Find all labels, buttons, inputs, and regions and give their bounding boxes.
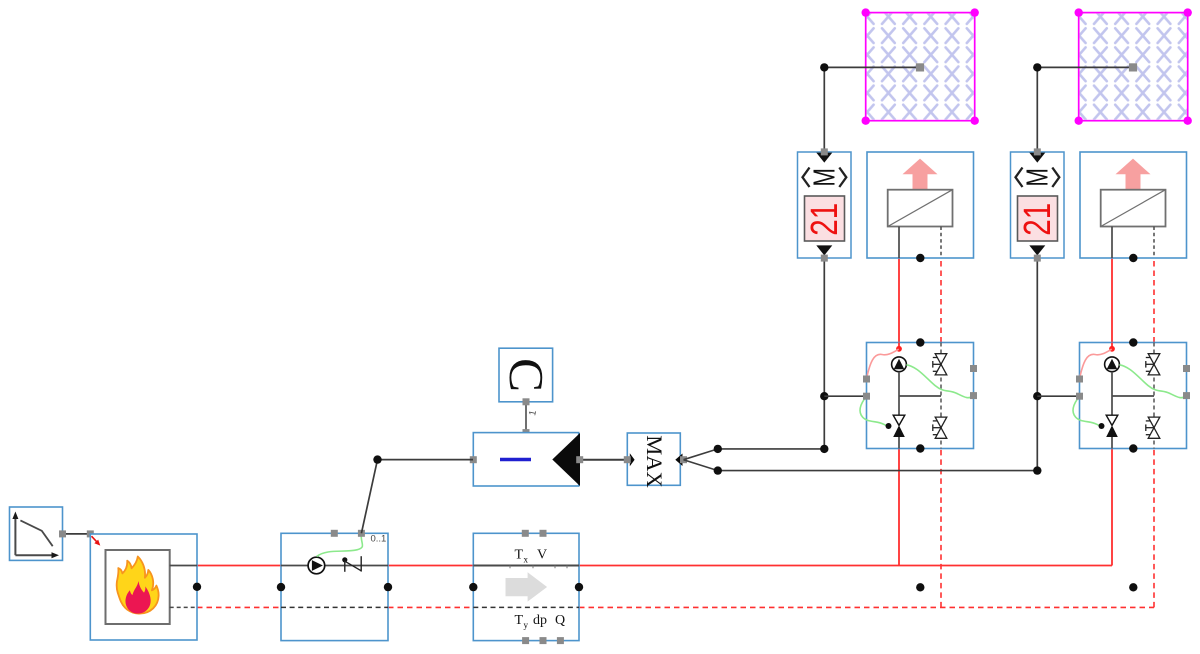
svg-text:M: M bbox=[1020, 168, 1054, 187]
node red bbox=[1109, 346, 1115, 352]
return pipe (red dashed) pump to sensor bbox=[388, 606, 473, 608]
wire riser control 1 vertical bbox=[823, 258, 825, 449]
connector square MAX output bbox=[680, 456, 687, 463]
return pipe (red dashed) main run bbox=[579, 606, 1154, 608]
green curve left to valve bbox=[860, 396, 888, 426]
svg-text:V: V bbox=[537, 548, 547, 563]
node zone1 junction bbox=[820, 63, 828, 71]
return pipe (red dashed) boiler to pump bbox=[197, 606, 281, 608]
connector squares mixer 2 bbox=[1076, 376, 1083, 383]
wire MAX out fan lower bbox=[684, 460, 1038, 471]
big black triangle bbox=[552, 433, 580, 486]
supply riser 1 lower bbox=[898, 449, 900, 566]
wire riser control 2 vertical bbox=[1036, 258, 1038, 471]
red input arrow into boiler bbox=[92, 536, 101, 545]
node boiler outlet bbox=[193, 583, 201, 591]
mixer pump bbox=[1105, 357, 1120, 372]
internal return line (black dashed) bbox=[473, 606, 579, 608]
connector square limiter top bbox=[523, 429, 530, 436]
wire heating curve to boiler bbox=[63, 533, 91, 535]
svg-text:y: y bbox=[524, 620, 529, 630]
connector square MAX input bbox=[624, 456, 631, 463]
boiler block bbox=[90, 534, 197, 640]
svg-text:T: T bbox=[515, 548, 524, 563]
svg-text:x: x bbox=[524, 555, 529, 565]
supply riser 2 upper bbox=[1111, 258, 1113, 343]
radiator body bbox=[888, 190, 953, 227]
crossover line bbox=[1112, 395, 1154, 397]
thermostat M21 block 1 bbox=[798, 152, 852, 258]
pump circle bbox=[308, 557, 325, 574]
mixing circuit block 2 bbox=[1073, 343, 1186, 449]
wire C to limiter bbox=[525, 402, 527, 433]
crossover line bbox=[899, 395, 941, 397]
wire branch 1 to mixer bbox=[824, 395, 866, 397]
connector square zone1 center bbox=[916, 63, 924, 71]
radiator block 2 bbox=[1080, 152, 1187, 258]
supply stub red bbox=[1111, 343, 1113, 349]
node red bbox=[896, 346, 902, 352]
svg-text:MAX: MAX bbox=[642, 435, 667, 488]
MAX block bbox=[627, 433, 682, 488]
return riser 1 lower (red dashed) bbox=[940, 449, 942, 608]
node mixer 2 top bbox=[1129, 338, 1137, 346]
pink control curve bbox=[867, 349, 899, 379]
svg-text:M: M bbox=[807, 168, 841, 187]
radiator supply pin bbox=[1111, 227, 1113, 259]
connector square C output bbox=[523, 398, 530, 405]
thermostat M21 block 2 bbox=[1011, 152, 1065, 258]
connector square limiter output bbox=[576, 456, 583, 463]
three-way valve bbox=[893, 415, 905, 425]
supply pipe (red) pump to sensor bbox=[388, 565, 473, 567]
pump to valve line bbox=[1111, 372, 1113, 416]
wire pump control up bbox=[361, 460, 473, 534]
node sensor right bbox=[575, 583, 583, 591]
green control curve to pump bbox=[317, 534, 363, 557]
valve outlet line bbox=[1111, 437, 1113, 449]
wire MAX out fan upper bbox=[684, 449, 825, 460]
return riser 2 lower (red dashed) bbox=[1153, 449, 1155, 608]
node corner 1 bbox=[820, 445, 828, 453]
heat arrow bbox=[1116, 159, 1151, 190]
wire M21a to zone1 bbox=[824, 67, 917, 151]
node corner 2 bbox=[1033, 466, 1041, 474]
node control junction bbox=[373, 455, 381, 463]
svg-text:21: 21 bbox=[1017, 203, 1059, 236]
connector squares mixer 1 bbox=[863, 376, 870, 383]
svg-text:T: T bbox=[515, 613, 524, 628]
pump to valve line bbox=[898, 372, 900, 416]
green curve left to valve bbox=[1073, 396, 1101, 426]
radiator supply pin bbox=[898, 227, 900, 259]
supply pipe (red) boiler to pump bbox=[197, 565, 281, 567]
node fan upper bbox=[714, 445, 722, 453]
node valve input bbox=[886, 423, 892, 429]
heating curve block bbox=[10, 507, 63, 560]
flame outer bbox=[117, 557, 159, 614]
balance valve top bbox=[1146, 354, 1160, 375]
three-way valve bbox=[1106, 415, 1118, 425]
limiter block with triangle bbox=[473, 433, 580, 486]
node floating 1 bbox=[916, 583, 924, 591]
return riser 1 upper (red dashed) bbox=[940, 258, 942, 343]
node mixer 1 bottom bbox=[916, 444, 924, 452]
boiler supply pin bbox=[170, 565, 197, 567]
connector square boiler input bbox=[87, 530, 94, 537]
node branch 1 bbox=[820, 392, 828, 400]
MAX input triangle bbox=[630, 453, 635, 466]
node valve input bbox=[1099, 423, 1105, 429]
radiator body bbox=[1101, 190, 1166, 227]
constant block C bbox=[499, 348, 553, 402]
heat arrow bbox=[903, 159, 938, 190]
svg-text:C: C bbox=[499, 358, 553, 392]
mixing circuit block 1 bbox=[860, 343, 973, 449]
supply stub red bbox=[898, 343, 900, 349]
radiator return pin dashed bbox=[1153, 227, 1155, 259]
wire M21b to zone2 bbox=[1037, 67, 1130, 151]
node pump left bbox=[277, 583, 285, 591]
gray flow arrow bbox=[506, 572, 548, 601]
node mixer 1 top bbox=[916, 338, 924, 346]
bypass dashed line bbox=[1153, 343, 1155, 449]
node zone2 junction bbox=[1033, 63, 1041, 71]
balance valve bottom bbox=[1146, 417, 1160, 438]
connector square curve block output bbox=[59, 530, 66, 537]
svg-text:Q: Q bbox=[555, 613, 565, 628]
node pump right bbox=[384, 583, 392, 591]
wire branch 2 to mixer bbox=[1037, 395, 1079, 397]
wire limiter to MAX bbox=[580, 459, 627, 461]
flow sensor block bbox=[473, 533, 579, 640]
MAX output triangle bbox=[675, 454, 682, 467]
thermal zone 2 bbox=[1075, 8, 1192, 125]
connector squares sensor top bbox=[522, 530, 529, 537]
svg-text:21: 21 bbox=[804, 203, 846, 236]
node sensor left bbox=[469, 583, 477, 591]
radiator block 1 bbox=[867, 152, 974, 258]
check valve symbol bbox=[342, 557, 347, 562]
node floating 2 bbox=[1129, 583, 1137, 591]
internal supply line bbox=[281, 565, 388, 567]
connector square zone2 center bbox=[1129, 63, 1137, 71]
balance valve top bbox=[933, 354, 947, 375]
green curve pump to right bbox=[1119, 365, 1186, 398]
valve outlet line bbox=[898, 437, 900, 449]
pump block bbox=[281, 533, 388, 640]
node fan lower bbox=[714, 466, 722, 474]
node radiator 1 bottom bbox=[916, 254, 924, 262]
balance valve bottom bbox=[933, 417, 947, 438]
green curve pump to right bbox=[906, 365, 973, 398]
supply riser 1 upper bbox=[898, 258, 900, 343]
internal supply line bbox=[473, 565, 579, 567]
mixer pump bbox=[892, 357, 907, 372]
boiler return pin (dashed) bbox=[170, 606, 197, 608]
connector squares sensor bottom bbox=[522, 637, 529, 644]
node mixer 2 bottom bbox=[1129, 444, 1137, 452]
internal return line (black dashed) bbox=[281, 606, 388, 608]
bypass dashed line bbox=[940, 343, 942, 449]
node branch 2 bbox=[1033, 392, 1041, 400]
radiator return pin dashed bbox=[940, 227, 942, 259]
node radiator 2 bottom bbox=[1129, 254, 1137, 262]
pink control curve bbox=[1080, 349, 1112, 379]
svg-text:0..1: 0..1 bbox=[371, 534, 387, 545]
connector squares M21b bbox=[1034, 148, 1041, 155]
supply riser 2 lower bbox=[1111, 449, 1113, 566]
svg-text:dp: dp bbox=[533, 613, 547, 628]
connector squares pump top bbox=[331, 530, 338, 537]
blue dash bbox=[500, 458, 531, 462]
thermal zone 1 bbox=[862, 8, 979, 125]
supply pipe (red) sensor to risers bbox=[579, 565, 1112, 567]
connector squares M21a bbox=[821, 148, 828, 155]
flame inner bbox=[125, 581, 150, 614]
connector square limiter left bbox=[470, 456, 477, 463]
return riser 2 upper (red dashed) bbox=[1153, 258, 1155, 343]
